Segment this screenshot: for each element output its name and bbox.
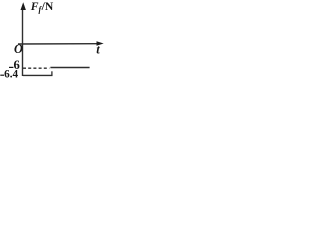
- step riser connecting -6.4 to -6 segment: [51, 71, 53, 76]
- vertical axis arrowhead: [21, 2, 26, 10]
- horizontal axis arrowhead: [97, 41, 104, 45]
- graph segment F_f = -6.4 N (initial): [23, 74, 53, 76]
- svg-text:Ff/N: Ff/N: [30, 0, 54, 14]
- svg-text:O: O: [14, 42, 23, 56]
- vertical axis (F_f axis shaft): [22, 8, 24, 76]
- svg-text:6.4: 6.4: [4, 69, 18, 81]
- svg-text:t: t: [96, 43, 100, 57]
- value label -6.4 (minus bar): [0, 74, 4, 76]
- graph segment F_f = -6 N (after step): [50, 67, 89, 69]
- value label -6 (minus bar): [9, 66, 13, 68]
- background: [0, 0, 106, 87]
- horizontal axis (t axis shaft): [18, 43, 98, 45]
- dashed guide line at F_f = -6 level: [23, 67, 49, 69]
